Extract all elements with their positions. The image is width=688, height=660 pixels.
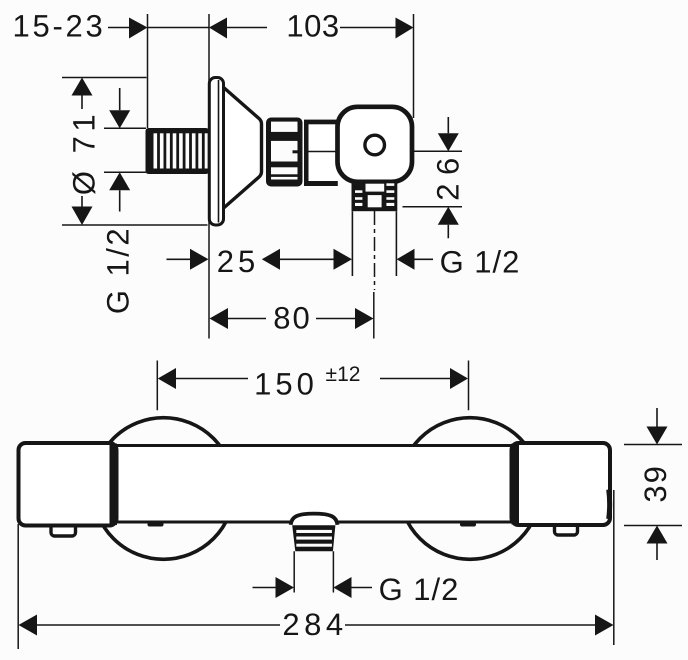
left handle joint band bbox=[110, 444, 118, 526]
bar body fill bbox=[110, 446, 516, 522]
centerline dashed below outlet bbox=[374, 211, 376, 290]
dim G12 bottom y587.5 bbox=[253, 587, 373, 589]
dia71 extension bottom bbox=[62, 224, 208, 226]
escutcheon plate inner line bbox=[218, 80, 220, 223]
arrow right tip wall bbox=[129, 18, 148, 39]
escutcheon back plate bbox=[209, 78, 223, 226]
right handle bbox=[512, 443, 611, 525]
union nut bbox=[266, 118, 303, 187]
svg-text:26: 26 bbox=[431, 149, 466, 200]
svg-text:150: 150 bbox=[254, 367, 318, 402]
G12 left pipe dim: upper line+arrow bbox=[119, 88, 121, 212]
valve circle bbox=[365, 135, 385, 155]
dim 80 y318.5 bbox=[228, 318, 355, 320]
G12 pipe edge extension lines bbox=[104, 128, 146, 172]
svg-text:103: 103 bbox=[286, 9, 339, 44]
svg-text:Ø 71: Ø 71 bbox=[67, 110, 102, 195]
outlet extension lines bbox=[294, 551, 333, 592]
bottom outlet thread block bbox=[292, 525, 335, 551]
centerline tick in pipe bbox=[309, 151, 338, 153]
bottom outlet dome bbox=[291, 514, 338, 525]
right wall escutcheon circle bbox=[399, 418, 541, 560]
bar top line bbox=[113, 444, 515, 447]
outlet thread below body bbox=[352, 180, 398, 211]
extension line escutcheon back (full) bbox=[208, 14, 210, 339]
left handle bbox=[19, 443, 117, 526]
pipe lines below outlet bbox=[352, 211, 396, 276]
svg-text:25: 25 bbox=[217, 244, 259, 279]
bump under bar left bbox=[148, 522, 164, 527]
svg-text:G 1/2: G 1/2 bbox=[379, 572, 460, 607]
escutcheon cone bbox=[223, 87, 262, 210]
dim line 25 / G12 y259.3 bbox=[167, 258, 434, 260]
right handle edge sliver bbox=[606, 490, 612, 520]
dia71 extension top bbox=[62, 77, 147, 79]
extension line 103 right bbox=[413, 14, 415, 118]
right handle joint band bbox=[512, 444, 520, 525]
svg-text:G 1/2: G 1/2 bbox=[101, 226, 136, 314]
svg-text:G 1/2: G 1/2 bbox=[440, 245, 521, 280]
svg-text:±12: ±12 bbox=[326, 363, 361, 386]
right handle button bbox=[555, 518, 578, 535]
arrow left tip escutcheon back bbox=[209, 18, 227, 39]
bump under bar right bbox=[460, 522, 476, 527]
dim 26 bbox=[403, 151, 463, 207]
left wall escutcheon circle bbox=[93, 418, 235, 560]
svg-text:15-23: 15-23 bbox=[12, 9, 105, 44]
svg-text:80: 80 bbox=[273, 301, 311, 336]
pipe rect between nut and body bbox=[304, 120, 338, 186]
bar bottom line bbox=[113, 521, 515, 524]
wall pipe thread bbox=[146, 128, 210, 174]
dim 39 bbox=[624, 445, 682, 526]
svg-text:284: 284 bbox=[282, 607, 347, 642]
dia71 dim line + arrows bbox=[81, 96, 83, 207]
extension line wall bbox=[147, 14, 149, 128]
valve body bbox=[338, 107, 413, 182]
svg-text:39: 39 bbox=[638, 464, 673, 502]
left handle button bbox=[51, 518, 76, 536]
dim line top y28 bbox=[108, 27, 396, 29]
dim 150 bbox=[157, 361, 468, 411]
arrow right tip 103 bbox=[396, 18, 414, 39]
wall pipe thread white slits bbox=[154, 133, 208, 168]
dim 284 bbox=[18, 490, 614, 649]
